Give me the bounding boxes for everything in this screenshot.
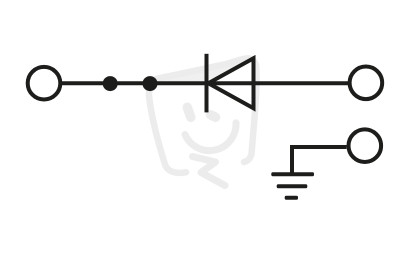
ground symbol bar 2: [277, 184, 308, 188]
terminal circle right: [350, 67, 383, 100]
ground symbol bar 3: [285, 196, 298, 200]
diode D1 anode triangle: [208, 58, 253, 108]
terminal circle ground-side: [349, 129, 382, 162]
ground symbol bar 1: [271, 172, 314, 176]
wire main horizontal: [62, 81, 349, 85]
diode D1 cathode bar: [205, 54, 209, 113]
junction dot 1: [103, 76, 118, 91]
junction dot 2: [143, 76, 158, 91]
wire to ground: [292, 147, 347, 174]
watermark group (decorative): [149, 57, 257, 186]
terminal circle left: [28, 67, 61, 100]
